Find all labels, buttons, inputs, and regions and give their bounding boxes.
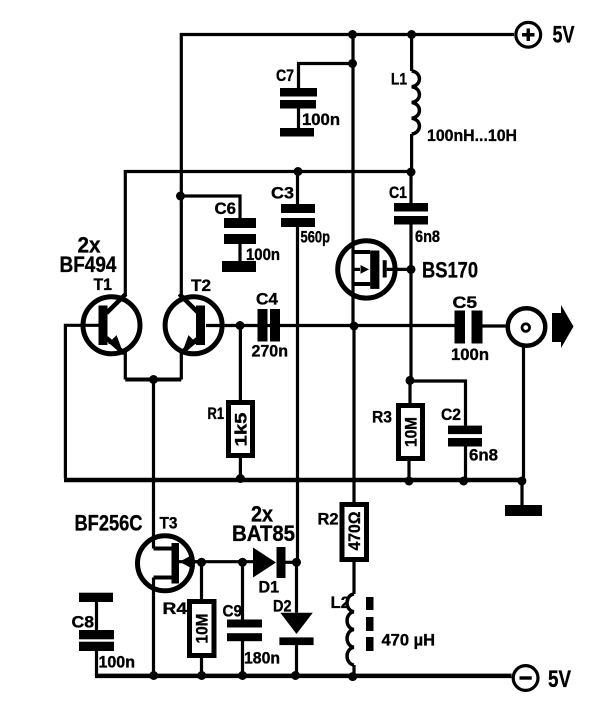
svg-text:T3: T3 <box>160 515 178 533</box>
svg-text:T1: T1 <box>94 276 113 294</box>
svg-text:10M: 10M <box>193 614 212 644</box>
svg-text:470 µH: 470 µH <box>382 632 436 650</box>
svg-text:C7: C7 <box>276 67 294 85</box>
svg-text:1k5: 1k5 <box>232 413 251 447</box>
svg-text:R2: R2 <box>318 511 339 529</box>
svg-text:100n: 100n <box>99 654 136 672</box>
svg-text:L1: L1 <box>391 71 407 89</box>
svg-text:100n: 100n <box>246 246 280 264</box>
svg-text:BF494: BF494 <box>60 252 117 277</box>
svg-text:180n: 180n <box>244 650 280 668</box>
svg-text:BAT85: BAT85 <box>232 521 295 546</box>
svg-text:D2: D2 <box>273 598 292 616</box>
svg-text:6n8: 6n8 <box>415 228 440 246</box>
svg-text:470Ω: 470Ω <box>345 512 364 551</box>
svg-text:100n: 100n <box>302 111 340 129</box>
svg-text:T2: T2 <box>191 277 211 295</box>
svg-text:BS170: BS170 <box>422 258 478 283</box>
svg-text:C6: C6 <box>215 200 237 218</box>
svg-text:L2: L2 <box>331 594 351 612</box>
svg-text:C9: C9 <box>223 603 243 621</box>
svg-text:270n: 270n <box>252 343 289 361</box>
svg-text:R1: R1 <box>208 405 225 423</box>
svg-text:C3: C3 <box>271 185 294 203</box>
svg-text:5V: 5V <box>553 22 575 49</box>
svg-text:R3: R3 <box>372 409 392 427</box>
svg-text:BF256C: BF256C <box>75 511 143 536</box>
svg-text:10M: 10M <box>402 417 421 447</box>
svg-text:100nH...10H: 100nH...10H <box>427 127 517 145</box>
svg-text:C8: C8 <box>72 614 95 632</box>
svg-text:C2: C2 <box>441 406 461 424</box>
svg-text:C5: C5 <box>453 294 478 312</box>
svg-text:5V: 5V <box>548 666 571 693</box>
svg-text:C4: C4 <box>256 291 279 309</box>
svg-text:C1: C1 <box>389 184 407 202</box>
svg-text:D1: D1 <box>259 579 280 597</box>
svg-text:560p: 560p <box>301 229 331 247</box>
svg-text:100n: 100n <box>451 346 489 364</box>
svg-text:6n8: 6n8 <box>469 447 498 465</box>
svg-text:R4: R4 <box>163 600 188 618</box>
